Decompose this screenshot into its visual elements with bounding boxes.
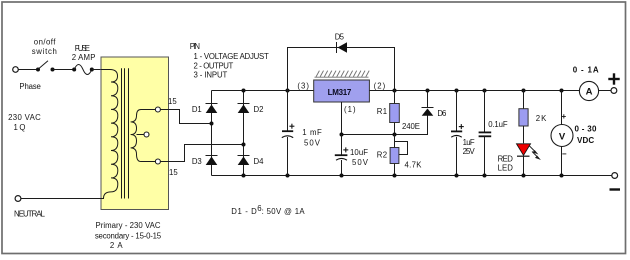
diode D6 <box>422 107 434 109</box>
switch S1 <box>36 68 40 72</box>
fuse F1 <box>72 68 76 72</box>
svg-text:240E: 240E <box>402 122 420 131</box>
terminal NEUTRAL <box>15 196 21 202</box>
protection diode D5 branch wire <box>288 48 395 91</box>
svg-text:(2): (2) <box>374 82 386 91</box>
svg-text:50V: 50V <box>352 158 369 167</box>
svg-text:1 - VOLTAGE ADJUST: 1 - VOLTAGE ADJUST <box>194 52 270 61</box>
svg-text:0 - 1A: 0 - 1A <box>573 66 599 75</box>
svg-text:: 50V @ 1A: : 50V @ 1A <box>262 207 306 216</box>
wire phase to switch <box>18 69 38 71</box>
svg-text:D1: D1 <box>192 105 202 114</box>
junction output D5 <box>393 89 397 93</box>
svg-text:RED: RED <box>498 154 514 163</box>
svg-text:15: 15 <box>169 168 178 177</box>
heatsink hatching <box>315 71 370 78</box>
svg-text:(1): (1) <box>344 105 356 114</box>
wire fuse to transformer <box>92 69 101 71</box>
svg-text:1uF: 1uF <box>463 138 475 147</box>
svg-text:15: 15 <box>168 97 177 106</box>
svg-text:1 mF: 1 mF <box>302 128 322 137</box>
potentiometer R2 4.7K <box>390 148 399 164</box>
wire switch to fuse <box>53 69 75 71</box>
svg-text:1Q: 1Q <box>14 123 26 132</box>
junction filter cap top <box>286 89 290 93</box>
svg-text:D4: D4 <box>254 157 265 166</box>
transformer core <box>121 68 123 198</box>
bridge right vertical wire <box>243 91 245 176</box>
junction AC right <box>242 143 246 147</box>
resistor R1 240E <box>390 104 400 123</box>
wire secondary top tap to bridge <box>160 110 211 124</box>
svg-text:V: V <box>559 131 566 142</box>
junction bridge bottom right <box>242 174 246 178</box>
LED red <box>517 144 531 156</box>
output rail wire <box>369 90 579 92</box>
transformer primary winding <box>101 70 118 199</box>
resistor R3 2K <box>522 89 526 93</box>
diode D2 <box>238 103 250 105</box>
svg-text:230 VAC: 230 VAC <box>8 113 41 122</box>
transformer T1 body <box>101 57 169 210</box>
svg-text:LED: LED <box>498 163 514 172</box>
svg-text:2K: 2K <box>536 114 547 123</box>
svg-text:D2: D2 <box>254 105 264 114</box>
capacitor C3 1uF <box>455 89 459 93</box>
svg-text:LM317: LM317 <box>328 88 352 97</box>
wire neutral to transformer <box>21 198 101 200</box>
svg-text:2 - OUTPUT: 2 - OUTPUT <box>194 61 234 70</box>
terminal Phase <box>13 67 19 73</box>
svg-text:D1 - D: D1 - D <box>231 207 257 216</box>
svg-text:0.1uF: 0.1uF <box>488 120 508 129</box>
LED light arrows <box>530 146 540 159</box>
junction AC left <box>210 122 214 126</box>
svg-text:Primary - 230 VAC: Primary - 230 VAC <box>96 221 161 230</box>
svg-text:+: + <box>562 112 567 121</box>
wire secondary bottom tap to bridge <box>160 145 243 162</box>
svg-text:R1: R1 <box>377 107 387 116</box>
adjust pin wire <box>342 102 428 135</box>
wire ammeter to terminal <box>599 90 611 92</box>
diode D3 <box>206 155 218 157</box>
svg-text:A: A <box>586 87 593 98</box>
ammeter M1 <box>579 81 598 100</box>
diode D4 <box>238 155 250 157</box>
svg-text:(3): (3) <box>297 82 309 91</box>
terminal output plus <box>611 88 617 94</box>
svg-text:FUSE: FUSE <box>75 44 90 53</box>
svg-text:0 - 30: 0 - 30 <box>575 125 598 134</box>
junction adj pin1 <box>340 133 344 137</box>
svg-text:VDC: VDC <box>577 136 594 145</box>
svg-text:3 - INPUT: 3 - INPUT <box>194 71 228 80</box>
svg-text:D6: D6 <box>437 109 446 118</box>
bridge top rail wire <box>212 90 314 92</box>
bridge left vertical wire <box>211 91 213 176</box>
svg-text:PIN: PIN <box>190 42 200 51</box>
svg-text:−: − <box>562 150 567 159</box>
svg-text:NEUTRAL: NEUTRAL <box>14 210 46 219</box>
capacitor C1 1mF <box>287 91 289 132</box>
svg-text:R2: R2 <box>377 150 387 159</box>
svg-text:D5: D5 <box>335 32 345 41</box>
junction adj R1R2 <box>393 133 397 137</box>
diode D1 <box>206 103 218 105</box>
svg-text:D3: D3 <box>192 157 202 166</box>
terminal output minus <box>612 173 618 179</box>
svg-text:switch: switch <box>32 47 57 56</box>
secondary tap 15 bottom <box>155 159 160 164</box>
svg-text:2 A: 2 A <box>110 241 123 250</box>
svg-text:10uF: 10uF <box>350 148 368 157</box>
svg-text:25V: 25V <box>463 147 476 156</box>
junction bridge top right <box>242 89 246 93</box>
regulator U1 LM317 <box>314 80 370 102</box>
voltmeter branch <box>560 89 564 93</box>
svg-text:2 AMP: 2 AMP <box>72 53 96 62</box>
svg-text:4.7K: 4.7K <box>405 161 423 170</box>
transformer secondary winding <box>131 110 156 162</box>
bottom rail wire <box>212 175 612 177</box>
svg-text:Phase: Phase <box>19 82 41 91</box>
voltmeter M2 <box>551 125 573 147</box>
secondary center tap <box>137 134 145 136</box>
capacitor C4 0.1uF <box>483 89 487 93</box>
svg-text:secondary - 15-0-15: secondary - 15-0-15 <box>95 231 162 240</box>
secondary tap 15 top <box>155 107 160 112</box>
capacitor C2 10uF <box>341 135 343 156</box>
svg-text:50V: 50V <box>304 139 321 148</box>
svg-text:on/off: on/off <box>34 38 56 47</box>
junction filter cap bottom <box>286 174 290 178</box>
